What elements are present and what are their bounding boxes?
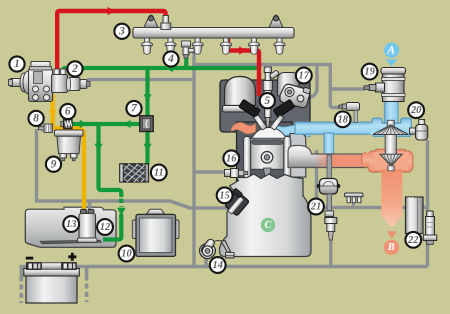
label circle 8 [28, 111, 43, 126]
label circle 18 [335, 111, 351, 127]
label circle 11 [151, 165, 167, 181]
label circle 7 [126, 101, 141, 116]
engine C: exhaust valve (black, left) [239, 99, 267, 130]
label circle 2 [67, 61, 82, 76]
engine C: cylinder head block [220, 80, 310, 181]
wire: lower right harness across to wastegate lead [317, 206, 428, 209]
label circle 10 [119, 246, 135, 262]
node A: intake air in marker [384, 43, 399, 67]
arrow: green down below regulator [143, 144, 151, 151]
crankshaft position sensor 14 with pulley [200, 238, 235, 259]
turbo turbine wheel [380, 154, 402, 171]
svg-text:4: 4 [167, 53, 174, 65]
svg-text:11: 11 [154, 168, 164, 179]
engine C: right side wall below head [290, 134, 306, 178]
arrow: green down to tank junction [94, 144, 102, 151]
label circle 6 [60, 104, 75, 119]
arrow: exhaust out (B direction) [387, 231, 397, 239]
svg-text:2: 2 [71, 63, 78, 75]
label circle 14 [210, 257, 226, 273]
fuel line: red drop visible over head to injector [257, 79, 261, 96]
fuel line: high pressure rail to injector 5 (red) [228, 38, 259, 96]
fuel line: return drop through pressure regulator 7 to fuel cooler (green) [145, 68, 149, 164]
arrow: green entering tank [117, 208, 126, 216]
wire: crankshaft sensor 14 to ground bus [204, 258, 207, 267]
svg-text:21: 21 [310, 202, 322, 213]
wastegate actuator 20 [410, 120, 428, 141]
engine C: intake port (blue) [273, 123, 311, 137]
overflow valve 6 (spring symbol) [61, 119, 72, 128]
arrow: red flow right to injector [239, 46, 246, 54]
fuel tank 12 [25, 207, 116, 247]
fuel cooler 11 [120, 164, 149, 182]
rail injector nozzle at x=279.5 [274, 38, 285, 54]
svg-text:8: 8 [33, 113, 39, 125]
wire: bottom ground bus from battery to lambda sensor [76, 265, 427, 268]
label circle 16 [223, 150, 239, 166]
rail injector nozzle at x=226 [220, 38, 231, 54]
engine C: intake valve (black, right) [270, 99, 295, 130]
svg-text:18: 18 [337, 114, 348, 125]
fuel temperature sensor 8 [39, 124, 53, 133]
label circle 1 [9, 56, 24, 71]
fuel line: return from metering unit along engine (green) [63, 56, 258, 72]
label circle 19 [362, 64, 378, 80]
exhaust downpipe fading to tailpipe arrow (orange) [381, 169, 402, 228]
rail injector nozzle at x=147 [141, 38, 152, 54]
svg-text:6: 6 [65, 106, 71, 118]
wire: stud-rail stem [352, 199, 355, 208]
catalytic converter 22 [406, 197, 424, 234]
battery minus symbol [26, 257, 33, 260]
engine C: left camshaft cover [223, 77, 258, 113]
svg-text:9: 9 [51, 158, 57, 170]
arrow: green return flow left [166, 64, 173, 72]
label circle 22 [405, 232, 421, 248]
fuel line: overflow valve 6 to regulator 7 (green) [71, 122, 141, 126]
engine mount bracket 17 [280, 84, 311, 107]
turbo compressor wheel [373, 120, 409, 134]
label circle 5 [260, 93, 275, 108]
wire: drop to engine bracket area [304, 65, 317, 208]
label circle 9 [46, 157, 61, 172]
pipe: intake manifold charge pipe (blue) [295, 122, 379, 134]
arrow: green left toward junction [124, 120, 131, 128]
wire: exhaust temp sensor to ground bus [329, 240, 332, 267]
svg-text:17: 17 [299, 71, 310, 82]
svg-text:B: B [387, 242, 395, 253]
engine C: combustion chamber dome [252, 128, 286, 142]
wire: from fuel metering unit 2 to harness bus [87, 78, 194, 81]
wire: branch to air-mass meter plug [330, 87, 365, 90]
svg-text:22: 22 [407, 235, 419, 246]
engine C: piston with rings and pin [251, 138, 284, 177]
wire: pump power lead over tank edge [88, 204, 91, 211]
fuel line: low pressure suction (yellow) tank to filter to pump [44, 94, 84, 213]
wire: harness from bus top across engine to right side junction [194, 65, 330, 108]
exhaust runner engine to turbo (steel pipe) [288, 146, 373, 168]
EGR pipe flange and exhaust temp sensor [325, 211, 337, 240]
svg-text:A: A [386, 44, 395, 56]
svg-text:20: 20 [410, 105, 422, 116]
oil pressure sensor 15 [225, 188, 249, 216]
label circle 12 [97, 219, 113, 235]
rail pressure control valve 4 [182, 41, 195, 58]
wire: branch down to in-tank fuel pump [88, 201, 91, 212]
battery plus symbol [68, 253, 76, 261]
wire: branch to glow plug 16 [194, 170, 227, 173]
svg-text:14: 14 [212, 260, 223, 271]
turbo turbine housing and inlet elbow (orange) [362, 149, 413, 172]
label circle 4 [163, 51, 178, 66]
wire: from fuel sensor 8 down, across to ECU and sensor 15 [37, 129, 231, 208]
rail injector nozzle at x=170.5 [165, 38, 176, 54]
label circle 15 [217, 187, 233, 203]
battery [24, 263, 80, 304]
fuel rail 3 with mounting brackets [133, 15, 294, 38]
high pressure pump 1 [9, 62, 53, 102]
lambda sensor 22 right [423, 211, 436, 244]
svg-text:16: 16 [226, 153, 237, 164]
wire: main vertical harness bus from rail injector down to ground bus [192, 47, 195, 267]
fuel line: green return entering tank (over tank) [103, 214, 121, 240]
turbo compressor housing (blue) [371, 118, 412, 136]
wire: battery negative lead with dashed continuation [21, 267, 27, 304]
node B: exhaust out marker [384, 240, 399, 255]
svg-text:5: 5 [264, 95, 270, 107]
svg-text:3: 3 [118, 26, 125, 38]
EGR valve 21 [317, 155, 341, 211]
fuel line: yellow suction over tank edge to pump [82, 204, 86, 211]
boost pressure sensor 18 [339, 103, 360, 123]
pipe: EGR branch down from intake (blue) [324, 133, 334, 155]
rail inlet fitting [161, 16, 171, 30]
engine C: exhaust port (orange) [232, 122, 256, 133]
intake stud rail fitting [345, 193, 364, 203]
fuel filter 9 [55, 130, 84, 161]
fuel line: return down to tank (green, dashed where behind harness) [99, 124, 122, 207]
svg-text:1: 1 [14, 58, 20, 70]
rail injector nozzle at x=197.7 [192, 38, 203, 54]
engine C: right rocker cover [278, 73, 300, 97]
fuel line: high pressure pump to rail (red) [57, 11, 165, 72]
label circle 17 [296, 68, 312, 84]
svg-text:15: 15 [219, 190, 230, 201]
label circle 21 [308, 199, 324, 215]
svg-text:19: 19 [364, 67, 375, 78]
svg-text:13: 13 [66, 219, 77, 230]
turbo shaft [385, 131, 396, 157]
air mass meter 19 [364, 68, 406, 102]
arrow: red flow right to rail [108, 7, 115, 15]
arrow: green right from overflow valve [80, 120, 87, 128]
svg-text:12: 12 [100, 222, 111, 233]
rail injector nozzle at x=254 [248, 38, 259, 54]
wire: branch to boost pressure sensor 18 [330, 106, 342, 109]
injector 5 [262, 67, 280, 127]
label circle 20 [408, 102, 424, 118]
fuel metering unit 2 on pump [52, 69, 91, 93]
wire: dashed branch below battery positive bus [85, 268, 89, 302]
engine control unit 10 [132, 209, 179, 256]
pipe: duct from air mass meter down to turbo (blue) [385, 99, 399, 123]
node C: engine marker [261, 218, 275, 232]
svg-text:C: C [264, 220, 272, 231]
label circle 3 [114, 24, 129, 39]
label circle 13 [63, 216, 79, 232]
in-tank fuel pump 13 [78, 209, 98, 242]
svg-text:10: 10 [121, 249, 132, 260]
engine C: crankcase block [220, 174, 312, 257]
glow plug 16 [225, 169, 248, 178]
arrow: yellow flow up to pump [49, 106, 57, 113]
engine C: cylinder liner walls [244, 137, 291, 179]
fuel pressure regulator 7 [140, 116, 153, 132]
wire: wastegate actuator 20 lead down to ground bus [426, 140, 429, 267]
arrow: green down above regulator [143, 94, 151, 101]
